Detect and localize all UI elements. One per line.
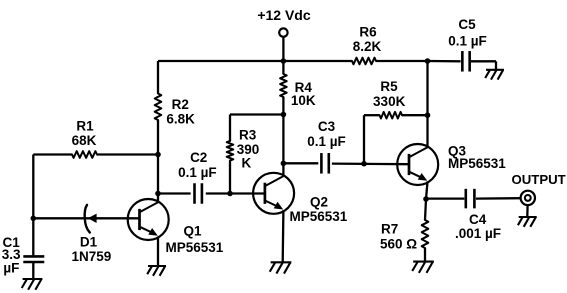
svg-text:C2: C2 [190,150,207,165]
svg-text:560 Ω: 560 Ω [380,237,417,252]
svg-text:10K: 10K [291,93,316,108]
svg-text:MP56531: MP56531 [448,156,506,171]
svg-text:68K: 68K [72,133,97,148]
svg-text:MP56531: MP56531 [290,209,348,224]
svg-text:C4: C4 [469,212,487,227]
svg-text:MP56531: MP56531 [166,240,224,255]
svg-text:K: K [242,156,252,171]
svg-text:+12 Vdc: +12 Vdc [257,7,311,23]
svg-text:OUTPUT: OUTPUT [512,172,566,187]
svg-text:R7: R7 [381,222,398,237]
svg-text:D1: D1 [80,235,98,250]
svg-text:0.1 µF: 0.1 µF [448,33,487,48]
svg-text:0.1 µF: 0.1 µF [307,134,346,149]
svg-text:R3: R3 [239,128,257,143]
svg-text:Q2: Q2 [310,195,328,210]
svg-text:R6: R6 [359,25,377,40]
svg-text:330K: 330K [373,94,406,109]
svg-text:C3: C3 [318,119,336,134]
svg-text:8.2K: 8.2K [353,39,382,54]
svg-text:R5: R5 [380,79,398,94]
svg-text:C5: C5 [458,17,476,32]
svg-text:0.1 µF: 0.1 µF [178,165,217,180]
svg-text:.001 µF: .001 µF [455,226,501,241]
svg-text:R1: R1 [76,119,94,134]
svg-text:R2: R2 [172,97,189,112]
svg-text:µF: µF [3,261,19,276]
svg-text:6.8K: 6.8K [166,112,195,127]
svg-text:1N759: 1N759 [72,249,112,264]
svg-text:Q1: Q1 [184,224,203,239]
